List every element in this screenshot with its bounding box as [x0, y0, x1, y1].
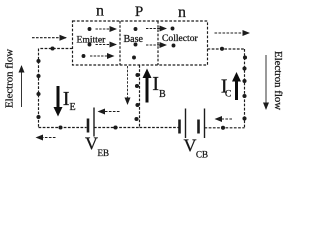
svg-text:P: P: [135, 4, 143, 20]
current arrow I_C: [232, 72, 241, 100]
base-collector junction divider: [157, 21, 159, 65]
electron on bottom-right wire: [221, 126, 225, 130]
electron flow arrow right of VEB: [99, 111, 120, 113]
electron flow arrow leaving collector: [215, 32, 250, 34]
bottom wire left segment to battery VEB: [39, 127, 87, 129]
electron on emitter wire: [50, 46, 54, 50]
thin electron-flow arrow down along base lead: [127, 66, 129, 104]
svg-text:Electron flow: Electron flow: [4, 49, 16, 108]
electron on collector wire: [220, 47, 224, 51]
electron flow arrow entering emitter: [32, 37, 66, 39]
electrons on right rail: [242, 55, 247, 120]
electrons in collector: [171, 27, 176, 48]
svg-text:V: V: [85, 134, 98, 154]
svg-text:C: C: [225, 90, 231, 100]
electron arrows crossing into collector: [146, 29, 166, 46]
thin electron-flow arrow down along right rail: [265, 55, 267, 109]
svg-text:E: E: [70, 102, 76, 113]
current arrow I_B: [143, 69, 152, 103]
svg-text:Electron flow: Electron flow: [272, 51, 284, 110]
svg-text:Base: Base: [124, 34, 144, 45]
electron on wire after VEB: [113, 125, 117, 129]
current arrow I_E: [54, 86, 63, 117]
bottom wire from base junction to battery VCB: [140, 127, 180, 129]
bottom wire from VEB to base junction: [94, 127, 140, 129]
svg-text:n: n: [178, 4, 186, 21]
electrons in base: [132, 27, 137, 59]
electron flow arrow right of VCB: [216, 118, 233, 120]
electrons on left rail: [36, 59, 40, 119]
right rail wire: [244, 49, 246, 128]
svg-text:CB: CB: [196, 150, 208, 160]
wire from emitter to left rail: [39, 48, 73, 50]
svg-text:V: V: [184, 136, 197, 156]
electrons and drift arrows in emitter: [82, 27, 116, 58]
svg-text:n: n: [96, 3, 104, 20]
bottom wire from VCB to right rail: [205, 127, 245, 129]
svg-text:Collector: Collector: [162, 33, 199, 44]
electron flow arrow bottom-left: [37, 137, 56, 139]
base lead wire: [139, 65, 141, 128]
electron on bottom-left wire: [58, 125, 62, 129]
left rail wire: [38, 49, 40, 128]
battery V_EB: [88, 108, 94, 137]
svg-text:B: B: [159, 89, 166, 100]
svg-text:EB: EB: [98, 148, 110, 158]
battery V_CB (two cells): [180, 109, 205, 139]
wire from collector to right rail: [208, 48, 245, 50]
emitter-base junction divider: [119, 21, 121, 65]
electrons on base wire: [134, 73, 139, 121]
thin electron-flow arrow up along left rail: [21, 66, 23, 107]
transistor body outline U1: [73, 21, 208, 65]
